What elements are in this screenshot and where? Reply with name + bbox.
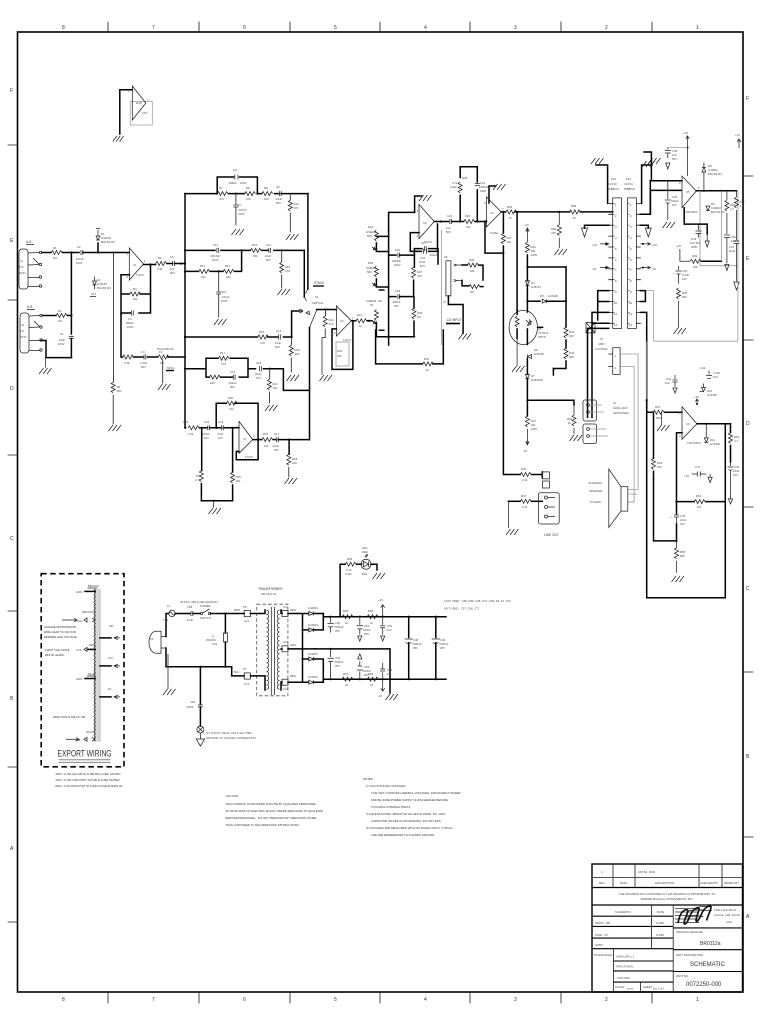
ground [320,338,333,381]
svg-text:C43: C43 [700,366,706,370]
svg-text:C47: C47 [695,465,701,469]
capacitor C53 [357,654,372,679]
wire [200,427,240,429]
svg-text:BAV,R1,R4: BAV,R1,R4 [97,286,111,290]
EQ right rail B [303,250,305,297]
resistor F1 [157,347,174,365]
pin numbers [614,203,633,327]
resistor R64 [345,562,356,566]
svg-text:U6: U6 [686,422,690,426]
svg-text:1N4448: 1N4448 [707,393,717,397]
U4 ground hook [489,186,496,203]
resistor R16 [356,313,367,328]
frame ticks left [8,145,17,922]
vactrol V1 [509,301,549,344]
relay box [586,323,595,333]
resistor R45 [520,467,531,482]
svg-text:12: 12 [614,323,618,327]
svg-text:E: E [10,238,14,244]
svg-text:P14: P14 [626,177,631,181]
resistor R21 vertical [267,369,278,403]
ground hook P13 [596,165,608,203]
svg-text:1/4W: 1/4W [345,572,352,576]
svg-text:(BROWN): (BROWN) [82,610,95,614]
svg-text:0072250-000: 0072250-000 [686,982,722,988]
logo area [675,906,740,924]
capacitor C39 [690,224,702,249]
op-amp U5 [679,176,700,214]
svg-text:1/2W: 1/2W [531,427,538,431]
svg-text:CL3: CL3 [244,682,250,686]
pots bottom wire [376,336,414,338]
ground [109,425,122,431]
wire P14 pin2 to U5 [640,181,682,215]
svg-text:3.3K: 3.3K [124,361,130,365]
resistor R39 [462,280,483,294]
svg-text:4: 4 [424,997,427,1003]
capacitor C50 [328,616,344,633]
svg-text:2.2k: 2.2k [522,478,528,482]
svg-text:SCALE: SCALE [615,985,624,989]
svg-text:CD INPUT: CD INPUT [447,318,462,322]
svg-text:R17: R17 [220,351,226,355]
svg-text:8V: 8V [108,687,112,691]
capacitor C3 [126,311,134,330]
EQ branch 2 wire [185,249,304,251]
svg-text:6: 6 [630,258,632,262]
svg-text:R9: R9 [264,186,268,190]
svg-text:1M: 1M [417,315,422,319]
ground arrow [705,234,709,247]
svg-text:+: + [670,515,672,519]
ground [591,158,604,164]
op-amp U2 [334,306,354,342]
svg-text:TOUCHING INTERNAL PARTS.: TOUCHING INTERNAL PARTS. [371,805,411,809]
svg-text:16V: 16V [682,277,687,281]
svg-text:1M: 1M [470,290,475,294]
wire to node [83,252,114,254]
capacitor C36 [724,235,738,271]
wire P14 pin2 to U5 [640,190,681,214]
svg-text:U3: U3 [423,221,427,225]
diode D7 vertical [525,359,542,401]
svg-text:P7: P7 [243,667,247,671]
cap C44 + ground [664,375,678,393]
dashed box [41,574,124,767]
ground hook P14 [642,165,652,203]
svg-text:10k: 10k [337,354,342,358]
capacitor C17 loop [414,241,438,264]
resistor R9b [262,186,273,201]
fuse F1 [163,604,175,622]
svg-text:C9: C9 [276,185,280,189]
secondary taps [281,605,289,691]
svg-text:1K: 1K [568,421,572,425]
svg-text:22K: 22K [210,381,215,385]
svg-text:C16: C16 [395,248,401,252]
headphone jack [583,400,629,443]
LED DS1 [357,563,362,565]
connector P15 [595,337,638,502]
svg-text:R7: R7 [219,186,223,190]
ground [648,158,661,164]
svg-text:1M: 1M [160,361,165,365]
diode D11 [704,424,720,446]
svg-text:1: 1 [601,870,603,874]
svg-text:47K: 47K [260,341,265,345]
resistor R5 [156,256,167,271]
svg-text:CHECKED BY: CHECKED BY [700,881,718,885]
op-amp U1 [127,248,147,280]
long feedback path [376,330,444,364]
svg-text:SWITCH: SWITCH [200,616,211,620]
svg-text:C17: C17 [274,432,280,436]
svg-text:R24: R24 [368,225,374,229]
resistor R2 [56,309,67,323]
svg-text:9: 9 [615,290,617,294]
svg-text:560: 560 [682,295,687,299]
resistor R1 [51,246,62,260]
svg-text:AND ARE REFERENCED TO CHASSIS: AND ARE REFERENCED TO CHASSIS GROUND. [371,833,435,837]
svg-text:CER: CER [480,189,486,193]
svg-text:.1uF: .1uF [664,381,670,385]
svg-text:PART NO.: PART NO. [676,974,689,978]
svg-text:1: 1 [144,259,146,263]
pot bottom wire [448,296,463,333]
diode D5 [540,294,566,303]
svg-text:B: B [10,696,14,702]
svg-text:P6: P6 [243,605,247,609]
svg-text:16V: 16V [733,473,738,477]
chassis tie C60 [186,667,257,746]
svg-text:C62: C62 [212,642,218,646]
EQ branch 4 wire [185,336,292,338]
svg-text:1: 1 [615,203,617,207]
resistor R58 [569,204,580,220]
caution text [225,794,323,827]
svg-text:7: 7 [152,997,155,1003]
svg-text:16V: 16V [420,264,425,268]
svg-text:R8: R8 [246,186,250,190]
svg-text:C5: C5 [170,255,174,259]
svg-text:100V: 100V [127,325,134,329]
svg-text:20K: 20K [117,389,122,393]
pot R25 [366,261,389,290]
diode D12 [309,612,314,616]
node [515,211,613,213]
LED pilot circuit [339,546,385,618]
svg-text:R14: R14 [252,243,258,247]
wire to rail [278,439,309,441]
svg-text:A-B: A-B [26,240,31,244]
svg-text:L5: L5 [600,337,604,341]
svg-text:L6: L6 [613,401,617,405]
EQ branch 3 wire [185,250,242,271]
resistor R42 vertical [525,400,537,439]
svg-text:LOCKING: LOCKING [595,347,608,351]
svg-text:R54: R54 [696,494,702,498]
wire to pot [367,320,372,322]
svg-text:TO AVOID RISK OF ELECTRIC SHOC: TO AVOID RISK OF ELECTRIC SHOCK, REFER S… [225,809,323,813]
svg-text:R47: R47 [521,494,527,498]
capacitor C19 [255,361,262,380]
grey feedback path [646,266,738,400]
svg-text:R23: R23 [337,349,343,353]
svg-text:.1uF: .1uF [386,672,392,676]
switch S2 [193,604,244,620]
svg-text:C12: C12 [266,243,272,247]
svg-text:20K: 20K [657,465,662,469]
svg-text:21V: 21V [108,656,113,660]
svg-text:.022uF: .022uF [429,253,438,257]
feedback resistor R54 [675,494,725,509]
svg-text:PART DESCRIPTION: PART DESCRIPTION [676,953,703,957]
svg-text:C19: C19 [256,361,262,365]
right column lines [673,928,742,972]
pin stubs P14 right [636,203,640,323]
wire down to R9 [113,253,115,383]
resistor R59 vertical [551,212,561,248]
svg-text:TL072: TL072 [343,338,351,342]
svg-text:16V: 16V [204,436,209,440]
wire [63,252,80,254]
capacitor C47 [684,465,712,483]
svg-text:SERVICE PERSONNEL. DO NOT PER: SERVICE PERSONNEL. DO NOT PERFORM ANY SE… [225,816,316,820]
ground [555,249,568,255]
svg-text:C60: C60 [190,700,196,704]
resistor R43 vertical [564,267,575,348]
svg-text:C18: C18 [395,289,401,293]
svg-text:16V: 16V [218,436,223,440]
connector P14 [628,198,637,329]
resistor R29 [183,420,199,436]
resistor R27 vertical [412,255,423,297]
svg-text:EXPORT WIRING: EXPORT WIRING [58,749,112,760]
svg-text:16V: 16V [256,376,261,380]
fuse note lines [55,772,122,788]
svg-text:C6: C6 [233,168,237,172]
svg-text:12: 12 [629,323,633,327]
EQ top branch wire [185,193,308,195]
svg-text:.01uF: .01uF [186,618,193,622]
capacitor C18 [389,289,414,308]
svg-text:BAV,R1,R4: BAV,R1,R4 [708,172,722,176]
AC plug P5 [149,631,166,653]
line out jack [538,472,559,537]
svg-text:10: 10 [370,683,374,687]
P13 lower pins bus [588,291,609,418]
svg-text:47k: 47k [229,407,234,411]
reverb pot P2 [444,255,462,296]
node y301 [526,300,528,302]
svg-text:-15: -15 [592,267,596,271]
svg-text:300: 300 [569,355,574,359]
+15 stub right [640,242,657,247]
op-amp A0 box [130,102,152,125]
svg-text:Corona, Calif. 91720: Corona, Calif. 91720 [714,913,740,917]
svg-text:R58: R58 [571,204,577,208]
tap BLUE [76,672,95,681]
wire jack2 to R2 [43,315,57,317]
svg-text:35V: 35V [440,646,445,650]
svg-text:DESCRIPTION: DESCRIPTION [655,881,674,885]
svg-text:NPB: NPB [691,245,697,249]
svg-text:2: 2 [630,214,632,218]
diode D10 [700,384,718,398]
diode D4 vertical [525,281,541,302]
svg-text:sht 1 of 1: sht 1 of 1 [653,987,665,991]
svg-text:10K: 10K [292,461,297,465]
diode D1 [96,229,115,253]
svg-text:F1: F1 [167,604,171,608]
svg-text:1N4004: 1N4004 [308,623,318,627]
wire to U4 [475,221,486,223]
svg-text:50K: 50K [367,234,372,238]
P14 lower pins bus [640,291,646,400]
svg-text:C10: C10 [221,290,227,294]
ground [113,136,124,142]
U1 feedback rail [121,265,151,315]
svg-text:R26: R26 [465,214,471,218]
svg-text:R66: R66 [343,609,349,613]
ground [663,222,676,228]
bottom wire [201,500,232,502]
svg-text:22K: 22K [295,352,300,356]
pot P4 [366,299,385,337]
svg-text:15k: 15k [253,254,258,258]
svg-text:1N4448: 1N4448 [534,352,544,356]
svg-text:THIS CONTROL IS PROVIDED FOR U: THIS CONTROL IS PROVIDED FOR USE BY QUAL… [225,802,317,806]
resistor R52 vertical [725,424,739,462]
tap 240V [76,584,99,594]
svg-text:+15: +15 [684,474,689,478]
ground [214,319,227,325]
resistor R35 vertical [231,428,241,501]
svg-text:R12: R12 [225,264,231,268]
svg-text:10k: 10k [264,444,269,448]
svg-text:1k: 1k [359,324,363,328]
cap C43 [700,366,720,379]
op-amp U7 [237,421,256,459]
svg-text:25V: 25V [335,664,340,668]
svg-text:BROWN: BROWN [88,584,99,588]
svg-text:C2: C2 [77,245,81,249]
cap C45 [728,462,740,504]
svg-text:2/4/98: 2/4/98 [656,921,664,925]
svg-text:NOT USED C37, C98, C72: NOT USED C37, C98, C72 [444,607,480,611]
svg-text:2: 2 [679,181,681,185]
capacitor C20 [446,214,453,234]
svg-text:4: 4 [630,236,632,240]
U1 lower branch wire [121,314,185,357]
tap right 21V [100,656,120,668]
svg-text:A: A [746,914,750,920]
+15 stub above U6 [694,395,699,405]
svg-text:2: 2 [605,25,608,31]
svg-text:120V / 3.15A CIRCUITRY SLO-BLO: 120V / 3.15A CIRCUITRY SLO-BLO FUSE 5A/2… [55,778,120,782]
svg-text:WIRE P/NS & SM-127-4B: WIRE P/NS & SM-127-4B [53,715,85,719]
svg-text:3: 3 [514,25,517,31]
svg-text:1: 1 [696,25,699,31]
svg-text:+15: +15 [592,243,597,247]
resistor R10 vertical [288,194,299,232]
capacitor C10 [216,271,230,317]
svg-text:R29: R29 [183,420,189,424]
svg-text:LAST USED C60, R98, C48, C72: LAST USED C60, R98, C48, C72, CR3, P4, S… [444,599,511,603]
svg-text:BLU: BLU [234,670,239,674]
ground [287,375,300,381]
svg-text:10: 10 [345,683,349,687]
svg-text:FRACTIONAL: FRACTIONAL [616,965,634,969]
svg-text:25V: 25V [364,673,369,677]
resistor R11 [199,264,210,279]
svg-text:RED: RED [290,608,296,612]
arrow into switch [299,309,303,313]
second chain R47 [735,191,746,240]
svg-text:R30: R30 [228,396,234,400]
rectifier diodes [288,606,323,684]
svg-text:SAVE JACK: SAVE JACK [613,406,628,410]
svg-text:CMN: CMN [598,342,604,346]
svg-text:1M: 1M [58,319,63,323]
wire right to power amp [527,400,574,405]
ground [570,435,583,441]
ground [158,384,171,390]
svg-text:3: 3 [514,997,517,1003]
svg-text:15k: 15k [201,275,206,279]
svg-text:2: 2 [605,997,608,1003]
svg-text:.0033: .0033 [186,705,193,709]
resistor R46 [508,494,542,509]
svg-text:50V: 50V [230,385,235,389]
svg-text:10k: 10k [466,225,471,229]
ground [506,501,519,535]
svg-text:CL9: CL9 [76,648,82,652]
resistor R66 [342,609,367,625]
svg-text:+15: +15 [683,131,688,135]
svg-text:2: 2 [615,214,617,218]
frame ticks bottom [108,992,652,1003]
svg-text:6: 6 [615,258,617,262]
svg-text:+: + [673,271,675,275]
agnd arrow right [640,225,651,237]
svg-text:B: B [746,754,750,760]
svg-text:50V: 50V [141,365,146,369]
svg-text:MON: MON [20,335,27,339]
svg-text:3: 3 [417,209,419,213]
svg-text:DRWN RB: DRWN RB [595,921,610,925]
resistor R28 vertical [412,297,423,337]
svg-text:D: D [10,386,14,392]
svg-text:TL072: TL072 [245,455,253,459]
svg-text:USA: USA [726,920,732,924]
resistor R49 [680,191,722,269]
svg-text:FENDER MUSICAL INSTRUMENTS, IN: FENDER MUSICAL INSTRUMENTS, INC. [641,897,694,901]
svg-text:+15: +15 [694,395,699,399]
svg-text:J7: J7 [443,300,446,304]
wire to R53 [654,480,677,541]
svg-text:R5: R5 [158,256,162,260]
title block outer [592,864,743,992]
node [218,270,220,272]
svg-text:R25: R25 [368,261,374,265]
svg-text:680: 680 [680,554,685,558]
svg-text:4.7: 4.7 [740,204,744,208]
capacitor C48 [405,616,422,681]
svg-text:3: 3 [615,225,617,229]
svg-text:R41: R41 [424,357,430,361]
resistor R46 vertical [677,288,688,315]
